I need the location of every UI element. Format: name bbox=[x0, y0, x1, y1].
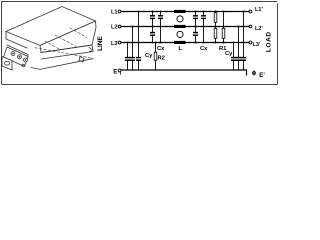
capacitor Cx output L1-L3 bbox=[201, 12, 206, 43]
capacitor Cy output column L2 bbox=[236, 27, 241, 71]
border frame bbox=[2, 1, 278, 85]
capacitor Cy input column L2 bbox=[130, 27, 135, 71]
svg-text:Cx: Cx bbox=[200, 46, 208, 52]
node dots output Cy taps bbox=[233, 42, 235, 44]
terminal L2 input bbox=[118, 25, 121, 28]
terminal L1 input bbox=[118, 10, 121, 13]
left end edge bbox=[6, 32, 27, 49]
choke L winding 1 bbox=[174, 10, 186, 13]
terminal screw 2 bbox=[18, 55, 22, 59]
capacitor Cy input column L1 bbox=[136, 12, 141, 71]
svg-text:L: L bbox=[179, 46, 183, 52]
resistor R1 L1-L3 bbox=[222, 12, 225, 43]
svg-text:L2’: L2’ bbox=[255, 26, 263, 32]
svg-text:LINE: LINE bbox=[97, 35, 104, 50]
svg-text:LOAD: LOAD bbox=[266, 31, 273, 52]
terminal screw 1 bbox=[11, 52, 15, 56]
right flange tab bbox=[79, 57, 84, 63]
svg-text:L1: L1 bbox=[111, 10, 117, 16]
terminal screw 3 bbox=[24, 58, 28, 62]
capacitor Cx input L2-L3 bbox=[150, 27, 155, 43]
resistor R1 L1-L2 bbox=[214, 12, 217, 27]
svg-text:L2: L2 bbox=[111, 25, 117, 31]
resistor R2 L3 to earth bbox=[154, 43, 157, 71]
svg-text:Cx: Cx bbox=[157, 46, 165, 52]
resistor R1 L2-L3 bbox=[214, 27, 217, 43]
capacitor Cx output L1-L2 bbox=[193, 12, 198, 27]
node dots Cx input bbox=[152, 11, 154, 13]
terminal L1' output bbox=[249, 10, 252, 13]
earth stud tick bbox=[120, 72, 122, 74]
capacitor Cx output L2-L3 bbox=[193, 27, 198, 43]
terminal L2' output bbox=[249, 25, 252, 28]
filter enclosure drawing bbox=[2, 7, 96, 71]
svg-text:R2: R2 bbox=[158, 56, 165, 62]
mounting flange with slot bbox=[2, 57, 12, 71]
node dots R1 bbox=[215, 11, 217, 13]
capacitor Cx input L1-L2 bbox=[150, 12, 155, 27]
svg-text:L1’: L1’ bbox=[255, 7, 263, 13]
capacitor Cy input column L3 bbox=[125, 43, 130, 71]
svg-text:E’: E’ bbox=[259, 73, 265, 79]
wire L3 bbox=[121, 42, 249, 44]
terminal L3' output bbox=[249, 41, 252, 44]
front face hatching dashes bbox=[35, 48, 93, 59]
choke core circle 1 bbox=[177, 16, 183, 22]
choke L winding 2 bbox=[174, 25, 186, 28]
node dots Cx output bbox=[195, 11, 197, 13]
svg-text:E: E bbox=[113, 68, 117, 75]
node dot R2 tap bbox=[155, 42, 157, 44]
svg-text:L3: L3 bbox=[111, 41, 117, 47]
svg-text:Cy: Cy bbox=[145, 53, 153, 59]
capacitor Cx input L1-L3 bbox=[158, 12, 163, 43]
choke core circle 2 bbox=[177, 31, 183, 37]
terminal E input bbox=[118, 69, 121, 72]
svg-text:Cy: Cy bbox=[225, 51, 233, 57]
terminal L3 input bbox=[118, 41, 121, 44]
capacitor Cy output column L1 bbox=[241, 12, 246, 71]
terminal E' output bbox=[253, 72, 256, 75]
ground bus wire bbox=[121, 70, 247, 76]
choke L winding 3 bbox=[174, 41, 186, 44]
svg-text:L3’: L3’ bbox=[253, 42, 261, 48]
capacitor Cy output column L3 bbox=[231, 43, 236, 71]
node dots input Cy taps bbox=[127, 42, 129, 44]
wire L2 bbox=[121, 26, 249, 28]
enclosure base band bbox=[41, 45, 93, 59]
enclosure top face bbox=[6, 7, 96, 46]
enclosure front face bbox=[40, 21, 96, 53]
wire L1 bbox=[121, 11, 249, 13]
base bottom edge bbox=[31, 59, 93, 70]
terminal block bbox=[4, 47, 29, 67]
block mounting hole bbox=[22, 64, 24, 66]
